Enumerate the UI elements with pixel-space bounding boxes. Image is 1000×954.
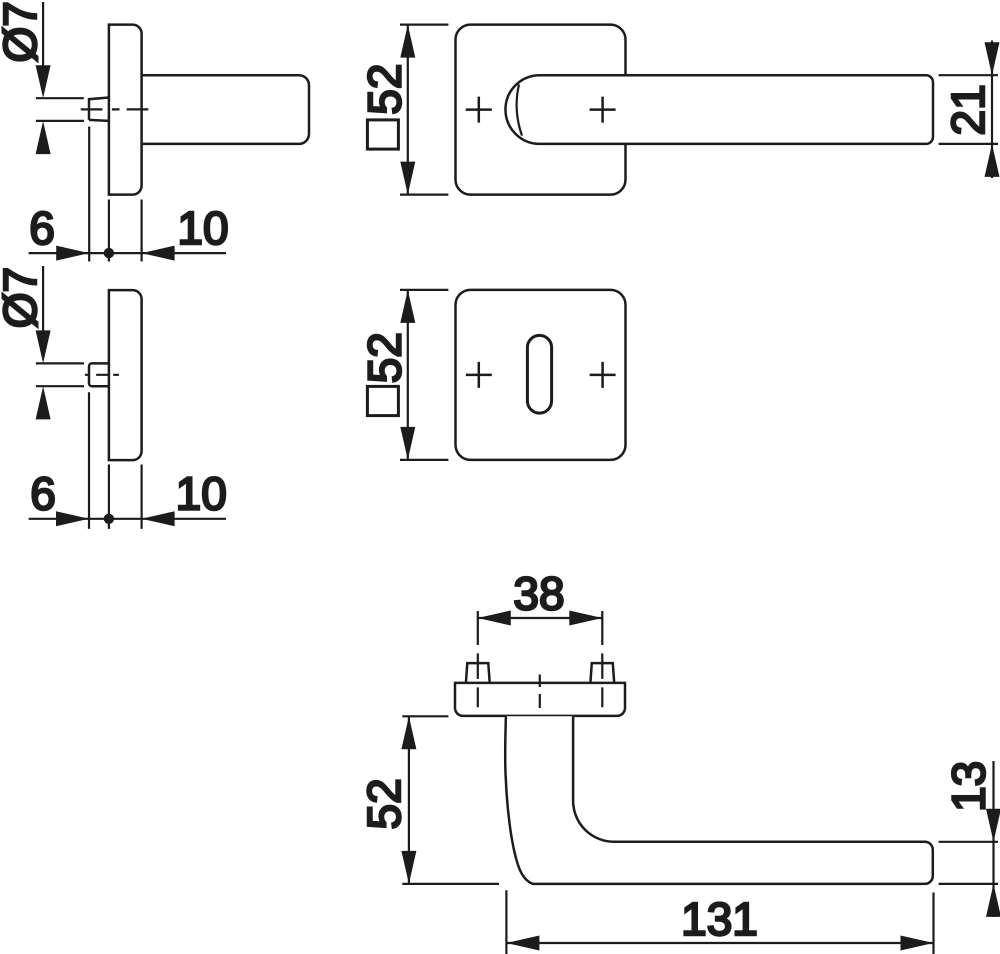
- svg-text:52: 52: [358, 64, 410, 115]
- svg-text:52: 52: [358, 332, 410, 383]
- svg-text:21: 21: [942, 84, 994, 135]
- view 1 side: rosette profile: [109, 25, 142, 195]
- dim 6/10 (view1) extension lines: [89, 127, 141, 262]
- svg-text:13: 13: [942, 761, 994, 812]
- svg-text:131: 131: [681, 893, 758, 945]
- view 1 side: spindle nub: [89, 98, 109, 121]
- dim 13 extension lines: [939, 842, 998, 884]
- view 2 front: key rosette plate: [456, 290, 626, 460]
- dim Ø7 (view1) line: [36, 2, 84, 121]
- dim square52 (view2) dimension line: [407, 290, 409, 460]
- dim 52 (view3) extension lines: [402, 716, 499, 884]
- dim square52 (view2) square symbol: [367, 386, 398, 415]
- view 2 side: key rosette profile: [109, 290, 142, 460]
- view 3 top: handle outline: [505, 716, 933, 884]
- view 1 front: screw cross right: [590, 97, 616, 123]
- dim square52 (view2) extension lines: [400, 290, 448, 460]
- svg-text:10: 10: [177, 202, 228, 254]
- dim 21 arrows: [985, 42, 1000, 177]
- dim 6/10 (view1) arrows and dot: [56, 246, 174, 261]
- view 1 front: rosette plate: [456, 25, 626, 195]
- view 2 front: screw cross left: [466, 362, 492, 388]
- view 3 top: screw stub right: [590, 663, 614, 683]
- dim square52 (view1) square symbol: [367, 120, 398, 149]
- dim 21 extension lines: [939, 75, 998, 144]
- dim 21 dimension line: [991, 41, 993, 179]
- view 3 top: screw stub left: [466, 663, 490, 683]
- svg-text:38: 38: [513, 568, 564, 620]
- view 1 side: centerline dashes: [81, 108, 149, 110]
- dim square52 (view1) arrows: [400, 25, 415, 195]
- view 1 front: lever with round cap: [505, 75, 933, 144]
- view 3 top: screw centerline right: [601, 611, 603, 707]
- svg-text:6: 6: [29, 202, 55, 254]
- svg-text:Ø7: Ø7: [0, 267, 46, 328]
- dim 38 arrows: [478, 611, 603, 626]
- svg-text:52: 52: [358, 778, 410, 829]
- dim 131 arrows: [506, 936, 933, 951]
- dim 6/10 (view2) arrows and dot: [56, 511, 175, 526]
- dim 6/10 (view1) dimension line: [29, 252, 226, 254]
- view 2 front: screw cross right: [590, 362, 616, 388]
- dim Ø7 (view2) line: [36, 266, 84, 386]
- dim 13 dimension line: [992, 761, 994, 917]
- view 2 side: spindle nub: [89, 363, 109, 386]
- svg-text:6: 6: [30, 468, 56, 520]
- dim 6/10 (view2) dimension line: [29, 518, 226, 520]
- view 3 top: middle centerline: [539, 675, 541, 727]
- dim square52 (view1) dimension line: [407, 25, 409, 195]
- dim square52 (view1) extension lines: [400, 25, 448, 195]
- dim 38 dimension line: [478, 617, 603, 619]
- svg-text:Ø7: Ø7: [0, 1, 46, 62]
- dim Ø7 (view2) arrows: [36, 330, 51, 419]
- svg-text:10: 10: [176, 468, 227, 520]
- dim 13 arrows: [986, 809, 1000, 917]
- view 1 side: lever bar: [142, 75, 309, 144]
- dim 52 (view3) dimension line: [408, 716, 410, 884]
- dim 131 extension lines: [506, 890, 933, 954]
- dim 6/10 (view2) extension lines: [89, 392, 142, 529]
- dim 131 dimension line: [506, 942, 933, 944]
- view 2 front: keyhole slot: [527, 335, 551, 413]
- view 1 front: neck silhouette arc: [517, 85, 522, 136]
- dim square52 (view2) arrows: [400, 290, 415, 460]
- dim 52 (view3) arrows: [401, 716, 416, 884]
- view 1 front: screw cross left: [466, 97, 492, 123]
- dim Ø7 (view1) arrows: [36, 65, 51, 154]
- view 2 side: centerline dashes: [85, 374, 119, 376]
- view 3 top: rosette plate top view: [455, 683, 625, 716]
- view 3 top: screw centerline left: [477, 611, 479, 707]
